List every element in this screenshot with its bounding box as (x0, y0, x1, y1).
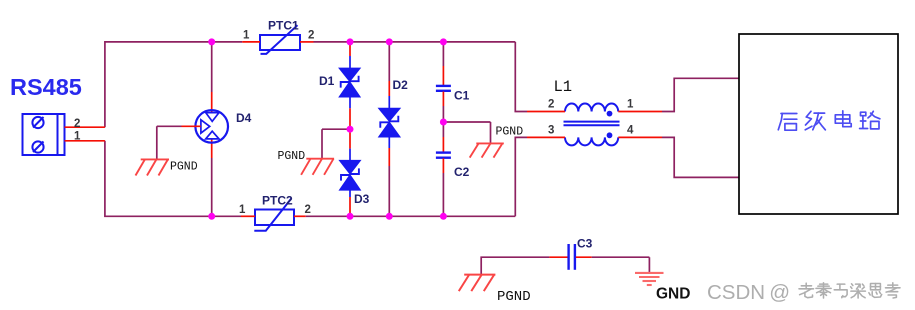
wire D4 left to PGND riser (157, 126, 182, 158)
tvs diode D1 (340, 68, 360, 96)
capacitor C3 (569, 244, 575, 270)
junction top bus / C1 (440, 38, 447, 45)
pin L1-1 stub (618, 111, 662, 113)
svg-text:L1: L1 (554, 78, 573, 96)
ground PGND (middle) (301, 159, 334, 175)
pin J1-1 stub (65, 140, 105, 142)
svg-text:1: 1 (243, 30, 250, 42)
wire L1.4 to block (662, 137, 739, 177)
pin PTC1-2 stub (300, 41, 314, 43)
pin L1-3 stub (547, 136, 565, 138)
ground PGND (C node) (470, 143, 504, 157)
svg-text:PGND: PGND (496, 126, 524, 139)
wire C1-C2 node lead (442, 92, 444, 152)
svg-text:D2: D2 (393, 78, 409, 92)
wire L1.1 to block (662, 78, 739, 111)
junction bottom bus / D4 (208, 213, 215, 220)
svg-text:PTC2: PTC2 (262, 194, 293, 208)
svg-text:C3: C3 (577, 237, 593, 251)
wire right vertical B to L1.3 (515, 137, 547, 216)
svg-text:1: 1 (239, 204, 246, 216)
svg-text:D1: D1 (319, 74, 335, 88)
capacitor C2 (436, 153, 451, 158)
svg-text:PTC1: PTC1 (268, 19, 299, 33)
wire D1-D3 node to PGND riser (322, 129, 350, 159)
common mode choke L1 (564, 104, 620, 146)
svg-text:2: 2 (305, 204, 311, 216)
junction C1-C2 / PGND (440, 119, 447, 126)
tvs diode D2 (379, 109, 399, 137)
wire D3 bottom stub (349, 190, 351, 217)
svg-text:RS485: RS485 (10, 74, 82, 100)
wire C3 right (576, 257, 650, 272)
pin PTC1-1 stub (242, 41, 260, 43)
svg-text:3: 3 (548, 125, 554, 137)
junction top bus / D2 (386, 38, 393, 45)
wire D3 top stub (349, 129, 351, 161)
wire D4 bottom (211, 139, 213, 216)
wire D2 top stub (388, 42, 390, 109)
ground PGND (left of D4) (136, 159, 170, 175)
pin J1-2 stub (65, 126, 105, 128)
thermistor PTC1 (260, 25, 300, 54)
svg-text:PGND: PGND (497, 289, 531, 305)
thermistor PTC2 (254, 198, 294, 231)
svg-text:D4: D4 (236, 111, 252, 125)
wire right vertical A to L1.2 (515, 42, 547, 112)
junction bottom bus / D3 (347, 213, 354, 220)
svg-text:C2: C2 (454, 165, 470, 179)
wire bottom bus (net B) (105, 141, 515, 217)
label 后级电路 (back-stage circuit) (778, 111, 880, 130)
wire C node to PGND riser (443, 122, 490, 143)
block back-stage circuit box (739, 34, 898, 214)
ground GND (earth) (635, 273, 664, 285)
junction D1-D3 / PGND (347, 126, 354, 133)
wire D1 top stub (349, 42, 351, 69)
wire C2 bottom lead (442, 158, 444, 216)
tvs diode D3 (340, 161, 360, 190)
gas discharge tube D4 (195, 110, 228, 143)
svg-text:4: 4 (627, 125, 634, 137)
svg-text:PGND: PGND (170, 161, 198, 174)
watermark CSDN @laoqin-yu-liangsikao (707, 281, 900, 304)
svg-text:GND: GND (656, 286, 690, 303)
junction top bus / D4 (208, 38, 215, 45)
svg-text:PGND: PGND (278, 150, 306, 163)
wire C1 top lead (442, 42, 444, 85)
pin PTC2-1 stub (241, 215, 255, 217)
svg-text:CSDN @: CSDN @ (707, 281, 790, 304)
wire D1 bottom stub (349, 97, 351, 130)
svg-text:D3: D3 (354, 192, 370, 206)
ground PGND (bottom) (459, 275, 496, 292)
wire D2 bottom stub (388, 137, 390, 217)
svg-text:2: 2 (74, 118, 80, 130)
wire C3 left (481, 257, 567, 274)
wire top bus (net A) (105, 42, 515, 127)
wire D4 top (211, 42, 213, 113)
junction bottom bus / D2 (386, 213, 393, 220)
svg-text:C1: C1 (454, 89, 470, 103)
capacitor C1 (436, 86, 451, 91)
pin L1-2 stub (547, 111, 565, 113)
junction bottom bus / C2 (440, 213, 447, 220)
svg-text:1: 1 (627, 99, 634, 111)
connector J1 (RS485 terminal block) (23, 114, 65, 155)
pin D4 left stub (182, 125, 201, 127)
pin PTC2-2 stub (294, 215, 306, 217)
junction top bus / D1 (347, 38, 354, 45)
svg-text:2: 2 (548, 99, 554, 111)
svg-text:1: 1 (74, 131, 81, 143)
pin L1-4 stub (618, 136, 662, 138)
svg-text:2: 2 (308, 30, 314, 42)
